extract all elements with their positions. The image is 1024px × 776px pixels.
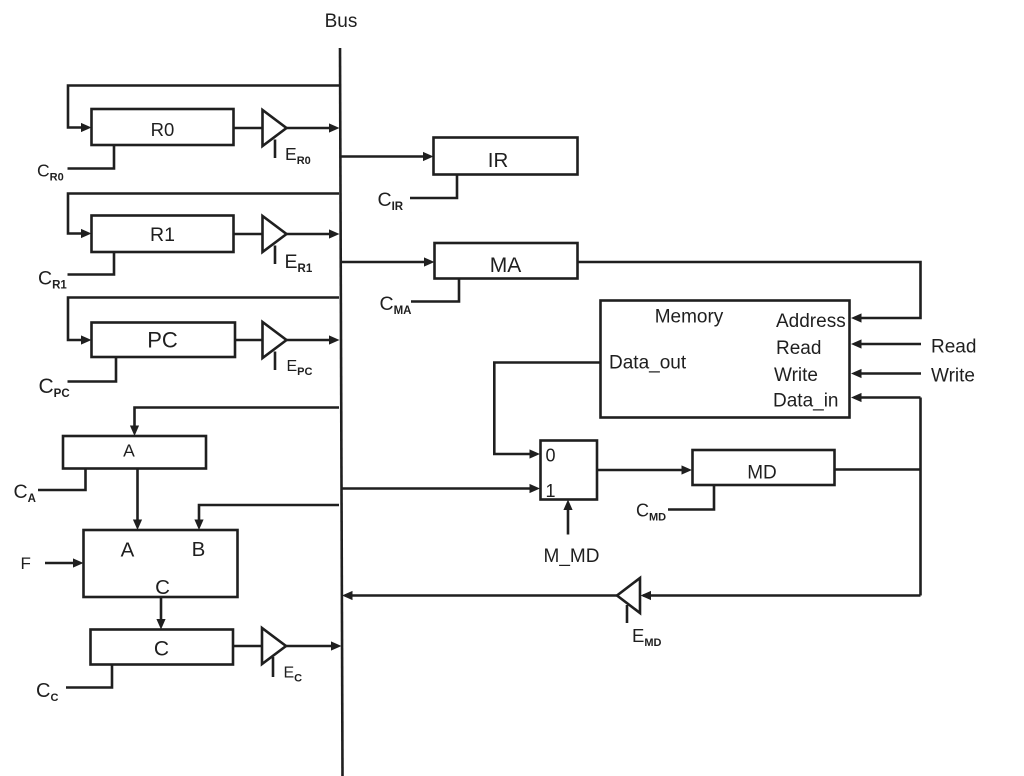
wire rail to Memory Data_in bbox=[851, 393, 921, 402]
svg-text:Data_out: Data_out bbox=[609, 353, 687, 374]
register A bbox=[63, 436, 206, 469]
svg-text:M_MD: M_MD bbox=[544, 546, 600, 567]
register MA bbox=[435, 243, 578, 279]
wire bus to register A bbox=[130, 408, 339, 437]
node Bus label bbox=[325, 11, 358, 32]
register R0 bbox=[92, 109, 234, 145]
svg-text:A: A bbox=[121, 539, 135, 562]
wire PC feedback from bus bbox=[68, 298, 339, 345]
wire E_R0 to bus bbox=[287, 123, 340, 132]
wire ALU output to register C bbox=[156, 597, 165, 630]
svg-text:CPC: CPC bbox=[39, 375, 70, 400]
buffer E_MD bbox=[617, 578, 640, 623]
svg-text:CC: CC bbox=[36, 680, 58, 704]
buffer E_C bbox=[262, 628, 286, 677]
pin Address bbox=[776, 311, 846, 332]
wire rail to buffer E_MD bbox=[641, 591, 921, 600]
wire C_MA to MA bbox=[411, 279, 459, 302]
svg-text:Data_in: Data_in bbox=[773, 391, 839, 412]
register PC bbox=[92, 323, 236, 358]
wire R1 output to buffer bbox=[234, 233, 263, 236]
svg-text:ER1: ER1 bbox=[285, 251, 313, 275]
wire bus to MA bbox=[341, 257, 435, 266]
label Write bbox=[931, 366, 975, 387]
svg-text:CMA: CMA bbox=[380, 293, 412, 317]
svg-text:Write: Write bbox=[774, 365, 818, 386]
svg-text:CR1: CR1 bbox=[38, 268, 67, 292]
wire C_A to A bbox=[38, 469, 86, 491]
pin Data_in bbox=[773, 391, 839, 412]
label C_C bbox=[36, 680, 58, 704]
label E_MD bbox=[632, 625, 662, 649]
ALU block bbox=[84, 530, 238, 599]
wire E_R1 to bus bbox=[287, 229, 340, 238]
svg-text:CA: CA bbox=[14, 481, 36, 505]
label C_R0 bbox=[37, 161, 64, 184]
wire Data_out to mux input 0 bbox=[494, 363, 600, 459]
wire PC output to buffer bbox=[235, 339, 263, 342]
wire C_R0 to R0 bbox=[68, 145, 115, 169]
svg-text:C: C bbox=[154, 638, 169, 661]
label F bbox=[21, 554, 31, 573]
wire C_R1 to R1 bbox=[68, 252, 115, 275]
svg-text:EC: EC bbox=[284, 665, 303, 685]
label Memory bbox=[655, 307, 724, 328]
svg-text:CIR: CIR bbox=[378, 189, 404, 213]
register IR bbox=[434, 138, 578, 175]
wire E_C to bus bbox=[286, 641, 342, 650]
svg-text:R0: R0 bbox=[151, 119, 175, 140]
svg-text:Bus: Bus bbox=[325, 11, 358, 32]
svg-text:PC: PC bbox=[147, 328, 178, 353]
buffer E_R0 bbox=[263, 110, 287, 158]
label E_R1 bbox=[285, 251, 313, 275]
wire E_PC to bus bbox=[287, 335, 340, 344]
wire C_IR to IR bbox=[410, 175, 457, 199]
label C_A bbox=[14, 481, 36, 505]
wire bus vertical bbox=[340, 48, 343, 776]
svg-text:0: 0 bbox=[546, 446, 556, 466]
svg-text:ER0: ER0 bbox=[285, 144, 311, 167]
memory block bbox=[601, 301, 850, 418]
wire R0 output to buffer bbox=[234, 127, 263, 130]
svg-text:CR0: CR0 bbox=[37, 161, 64, 184]
pin Read bbox=[776, 338, 821, 359]
label C_PC bbox=[39, 375, 70, 400]
wire R1 feedback from bus bbox=[68, 194, 339, 239]
multiplexer M_MD bbox=[541, 441, 598, 502]
svg-text:Memory: Memory bbox=[655, 307, 724, 328]
wire E_MD to bus bbox=[342, 591, 617, 600]
wire right rail vertical bbox=[919, 398, 922, 596]
label M_MD bbox=[544, 546, 600, 567]
svg-text:CMD: CMD bbox=[636, 501, 666, 524]
svg-text:F: F bbox=[21, 554, 31, 573]
pin Write bbox=[774, 365, 818, 386]
svg-text:R1: R1 bbox=[150, 224, 175, 246]
buffer E_R1 bbox=[263, 216, 287, 264]
register R1 bbox=[92, 216, 234, 253]
label C_MD bbox=[636, 501, 666, 524]
svg-text:MD: MD bbox=[747, 463, 777, 484]
wire Read input bbox=[851, 339, 921, 348]
wire MD output to right rail bbox=[835, 468, 921, 471]
svg-text:Read: Read bbox=[931, 337, 976, 358]
wire F to ALU bbox=[45, 558, 84, 567]
label E_C bbox=[284, 665, 303, 685]
label E_R0 bbox=[285, 144, 311, 167]
wire C_PC to PC bbox=[68, 357, 117, 382]
svg-text:B: B bbox=[192, 538, 206, 561]
svg-text:IR: IR bbox=[488, 149, 509, 172]
wire bus to mux input 1 bbox=[341, 484, 540, 493]
svg-text:C: C bbox=[155, 576, 170, 599]
buffer E_PC bbox=[263, 322, 287, 370]
wire Write input bbox=[851, 369, 921, 378]
svg-text:EPC: EPC bbox=[287, 358, 313, 378]
wire C_MD to MD bbox=[668, 485, 714, 510]
svg-text:1: 1 bbox=[546, 481, 556, 501]
svg-text:MA: MA bbox=[490, 254, 522, 277]
wire C_C to C bbox=[66, 665, 112, 688]
wire A to ALU input A bbox=[133, 469, 142, 531]
wire M_MD select input bbox=[563, 500, 572, 535]
pin Data_out bbox=[609, 353, 687, 374]
register C bbox=[91, 630, 234, 665]
svg-text:Address: Address bbox=[776, 311, 846, 332]
wire mux to MD bbox=[597, 465, 692, 474]
register MD bbox=[693, 450, 835, 485]
label Read bbox=[931, 337, 976, 358]
label C_IR bbox=[378, 189, 404, 213]
wire MA to Memory Address bbox=[578, 262, 921, 323]
label C_MA bbox=[380, 293, 412, 317]
wire C output to buffer bbox=[233, 645, 262, 648]
wire R0 feedback from bus bbox=[68, 86, 339, 133]
svg-text:Read: Read bbox=[776, 338, 821, 359]
label E_PC bbox=[287, 358, 313, 378]
label C_R1 bbox=[38, 268, 67, 292]
svg-text:Write: Write bbox=[931, 366, 975, 387]
wire bus to ALU input B bbox=[194, 505, 339, 530]
svg-text:A: A bbox=[123, 441, 135, 461]
svg-text:EMD: EMD bbox=[632, 625, 662, 649]
wire bus to IR bbox=[341, 152, 434, 161]
